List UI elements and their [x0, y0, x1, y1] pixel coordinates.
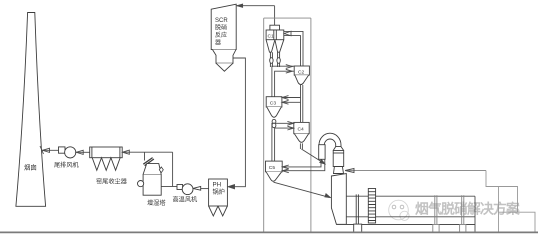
C5 discharge diagonal to smoke chamber with arrow [274, 182, 331, 197]
svg-text:C3: C3 [270, 100, 277, 106]
chimney [16, 13, 46, 207]
duct C3 to C2 with chevrons [272, 65, 294, 97]
rotary kiln body [336, 196, 475, 232]
cooler step lines right [486, 171, 535, 233]
SCR text [215, 18, 228, 47]
gooseneck duct [319, 133, 344, 166]
smoke chamber [331, 167, 346, 225]
svg-text:SCR: SCR [215, 18, 228, 24]
fan 高温风机 [177, 184, 201, 195]
preheater tower frame [264, 18, 311, 232]
svg-text:高温风机: 高温风机 [173, 196, 199, 204]
wire hot fan to PH boiler [201, 188, 209, 190]
svg-text:尾排风机: 尾排风机 [54, 161, 80, 169]
wire C1 top to SCR top with arrow [237, 4, 275, 25]
duct C5 top to C4 with chevrons (left channel lower) [272, 121, 294, 161]
svg-text:反应: 反应 [215, 31, 227, 39]
PH boiler [209, 179, 228, 216]
fan 尾排风机 [59, 147, 76, 158]
svg-text:烟气脱硝解决方案: 烟气脱硝解决方案 [415, 201, 520, 217]
svg-text:C1: C1 [268, 34, 275, 40]
bottom separator line [0, 231, 538, 233]
wire down to humidifier dome [144, 152, 146, 160]
kiln support 2 [433, 195, 439, 232]
duct riser leg to C5 with chevrons [282, 159, 325, 173]
humidifier inlet stub [143, 158, 154, 166]
wire into collector right side with arrow [122, 150, 172, 154]
wire fan to chimney with arrow [40, 146, 59, 154]
kiln support 1 [354, 194, 362, 232]
svg-text:窑尾收尘器: 窑尾收尘器 [96, 178, 128, 186]
kiln support 3 [460, 195, 466, 232]
C4 dip pipe and diagonal to calciner leg with arrow [300, 143, 325, 164]
wire collector to fan with arrow [76, 150, 90, 154]
cyclone C3 [266, 97, 282, 118]
svg-text:增湿塔: 增湿塔 [147, 199, 166, 207]
dust collector 窑尾收尘器 [90, 147, 123, 170]
svg-text:C2: C2 [298, 70, 305, 76]
wire down to hot fan inlet [172, 152, 174, 186]
svg-text:脱硝: 脱硝 [215, 24, 227, 32]
cyclone C2 [294, 66, 309, 85]
duct C2 dip to C4 / C3 inlet (right channel middle) [282, 85, 303, 122]
cyclone C5 [266, 161, 283, 181]
C3 discharge flap valves [272, 119, 276, 127]
humidifier 增湿塔 [138, 164, 164, 196]
SCR reactor [211, 4, 236, 71]
svg-text:C4: C4 [298, 126, 305, 132]
svg-text:锅炉: 锅炉 [213, 188, 225, 196]
wire SCR bottom to PH boiler right with arrow [228, 58, 245, 189]
C1 outlet duct to C2 (right channel) [284, 31, 303, 67]
svg-text:烟囱: 烟囱 [24, 163, 37, 172]
svg-text:PH: PH [213, 182, 222, 189]
cyclone C1 [266, 25, 284, 52]
svg-text:器: 器 [215, 40, 221, 47]
watermark logo [389, 200, 409, 220]
C1 dip pipes with flap valves [270, 52, 281, 67]
svg-text:C5: C5 [269, 165, 276, 171]
wire tertiary air to riser with open arrow [345, 169, 486, 173]
wire humidifier to hot fan [162, 186, 178, 188]
kiln girth gear [368, 189, 375, 224]
cyclone C4 [294, 122, 309, 142]
